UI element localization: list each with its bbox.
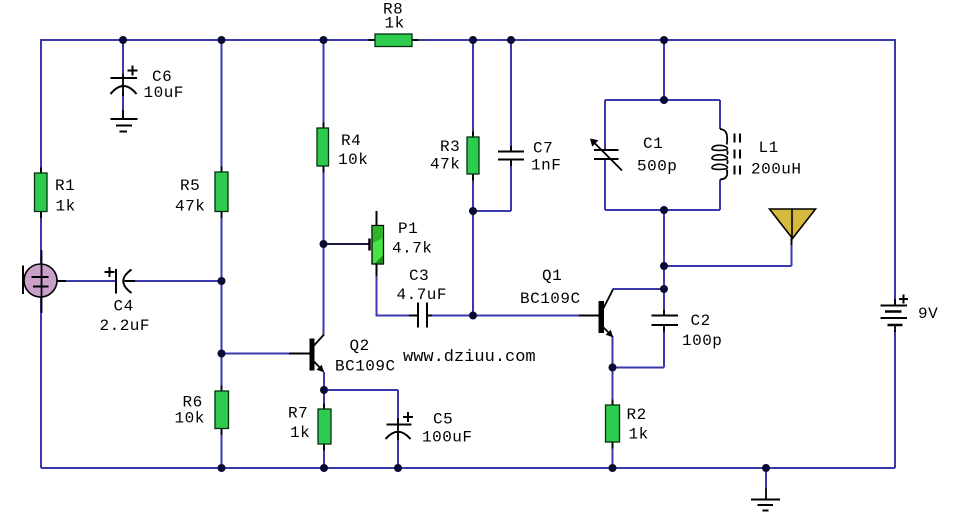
resistor R8 <box>369 34 419 47</box>
trimmer P1 <box>324 211 384 276</box>
capacitor C5 <box>386 412 414 440</box>
wire C3 to Q1 base <box>426 315 599 317</box>
svg-text:C7: C7 <box>533 140 553 158</box>
wire P1 bottom to C3 <box>377 264 411 316</box>
svg-text:Q1: Q1 <box>542 267 562 285</box>
label R4 <box>338 132 368 169</box>
wire bottom rail <box>41 467 895 469</box>
label C2 <box>682 312 722 350</box>
node tank bottom <box>660 206 668 214</box>
wire antenna feed <box>664 238 792 266</box>
svg-text:1k: 1k <box>629 426 649 444</box>
node top rail / C6 <box>119 36 127 44</box>
node bottom rail R7 <box>320 464 328 472</box>
label Q1 <box>520 267 581 308</box>
antenna <box>770 209 816 245</box>
svg-text:P1: P1 <box>398 220 418 238</box>
label R8 <box>383 1 405 33</box>
watermark <box>399 342 541 367</box>
node Q1 collector junction <box>660 285 668 293</box>
svg-text:R7: R7 <box>288 405 308 423</box>
wire R3-C7 vertical branch <box>472 40 474 316</box>
label R2 <box>627 406 649 444</box>
svg-text:2.2uF: 2.2uF <box>100 317 151 335</box>
capacitor C2 <box>652 310 679 332</box>
label Q2 <box>335 337 396 376</box>
node antenna junction <box>660 262 668 270</box>
svg-text:R1: R1 <box>55 177 75 195</box>
node tank top <box>660 96 668 104</box>
wire Q1 collector to tank <box>613 288 665 290</box>
label battery 9V <box>918 305 938 323</box>
svg-text:100uF: 100uF <box>422 429 473 447</box>
node P1 wiper R4 junction <box>320 240 328 248</box>
node bottom rail ground <box>762 464 770 472</box>
battery B1 9V <box>881 295 909 333</box>
variable capacitor C1 <box>590 139 622 171</box>
label R7 <box>288 405 310 443</box>
wire C7 branch <box>473 40 511 211</box>
svg-text:Q2: Q2 <box>350 337 370 355</box>
wire tank bottom stem <box>663 210 665 316</box>
label L1 <box>751 139 802 179</box>
wire Q2 base <box>222 353 310 355</box>
wire C2 bottom to Q1 emitter <box>613 325 665 368</box>
svg-text:4.7k: 4.7k <box>392 240 432 258</box>
label R1 <box>55 177 76 216</box>
svg-text:1k: 1k <box>385 15 405 33</box>
node top rail / R4 <box>320 36 328 44</box>
svg-text:R2: R2 <box>627 406 647 424</box>
svg-text:1k: 1k <box>56 198 76 216</box>
transistor Q2 <box>310 335 325 373</box>
svg-text:10k: 10k <box>175 410 205 428</box>
label R3 <box>430 138 460 174</box>
svg-text:10k: 10k <box>338 151 368 169</box>
transistor Q1 <box>599 290 614 338</box>
capacitor C7 <box>498 146 524 166</box>
label C3 <box>397 267 448 304</box>
svg-text:500p: 500p <box>637 158 677 176</box>
wire top rail <box>41 39 895 41</box>
svg-text:C5: C5 <box>433 411 453 429</box>
svg-text:10uF: 10uF <box>144 84 184 102</box>
label C7 <box>531 140 561 175</box>
ground bottom <box>751 500 780 511</box>
svg-text:R4: R4 <box>341 132 361 150</box>
capacitor C3 <box>409 303 432 328</box>
wire R5-R6 vertical branch <box>221 40 223 468</box>
label C1 <box>637 135 677 176</box>
wire Q1 emitter to R2 <box>612 336 614 468</box>
node bottom rail R2 <box>609 464 617 472</box>
wire tank loop rectangle <box>605 100 720 210</box>
svg-text:C4: C4 <box>114 298 134 316</box>
svg-text:C3: C3 <box>409 267 429 285</box>
microphone MIC <box>23 250 66 313</box>
inductor L1 <box>712 129 740 180</box>
svg-text:47k: 47k <box>430 156 460 174</box>
svg-text:47k: 47k <box>175 198 205 216</box>
wire R4 / Q2 collector branch <box>323 40 325 335</box>
svg-text:1k: 1k <box>290 424 310 442</box>
svg-text:BC109C: BC109C <box>335 358 396 376</box>
label C4 <box>100 298 151 336</box>
wire right rail <box>894 39 896 468</box>
wire tank top stem <box>663 40 665 100</box>
svg-text:200uH: 200uH <box>751 161 802 179</box>
svg-text:www.dziuu.com: www.dziuu.com <box>403 348 536 367</box>
wire ground stub bottom <box>765 468 767 500</box>
wire Q2 emitter node branch <box>323 372 325 468</box>
node top rail / tank <box>660 36 668 44</box>
svg-text:L1: L1 <box>759 139 779 157</box>
svg-text:C1: C1 <box>643 135 663 153</box>
resistor R5 <box>215 167 228 219</box>
label P1 <box>392 220 432 258</box>
node top rail / R3 <box>469 36 477 44</box>
svg-text:C2: C2 <box>691 312 711 330</box>
wire left rail <box>40 39 42 468</box>
svg-text:100p: 100p <box>682 332 722 350</box>
label C6 <box>144 68 184 102</box>
node bottom rail C5 <box>394 464 402 472</box>
svg-text:R3: R3 <box>440 138 460 156</box>
resistor R3 <box>467 132 479 181</box>
resistor R7 <box>318 404 331 451</box>
wire mic to C4 <box>66 280 222 282</box>
svg-text:BC109C: BC109C <box>520 290 581 308</box>
node Q2 emitter junction <box>320 386 328 394</box>
node bottom rail R6 <box>218 464 226 472</box>
capacitor C4 <box>105 267 136 294</box>
svg-text:4.7uF: 4.7uF <box>397 286 448 304</box>
node R3 C7 junction <box>469 207 477 215</box>
resistor R2 <box>606 400 620 449</box>
svg-text:9V: 9V <box>918 305 938 323</box>
ground C6 <box>111 119 138 132</box>
svg-text:1nF: 1nF <box>531 157 561 175</box>
wire C6 branch <box>122 40 124 119</box>
node Q2 base junction <box>218 350 226 358</box>
wire emitter node to C5 <box>324 390 398 468</box>
resistor R1 <box>35 168 48 219</box>
label C5 <box>422 411 473 447</box>
node C3 Q1 base junction <box>469 312 477 320</box>
node top rail / R5 <box>218 36 226 44</box>
svg-text:R5: R5 <box>180 177 200 195</box>
label R6 <box>175 394 205 428</box>
node Q1 emitter C2 junction <box>609 364 617 372</box>
node C4 R5 junction <box>218 277 226 285</box>
capacitor C6 <box>111 66 138 120</box>
node top rail / C7 <box>507 36 515 44</box>
resistor R4 <box>317 123 329 173</box>
label R5 <box>175 177 205 216</box>
resistor R6 <box>215 386 229 436</box>
